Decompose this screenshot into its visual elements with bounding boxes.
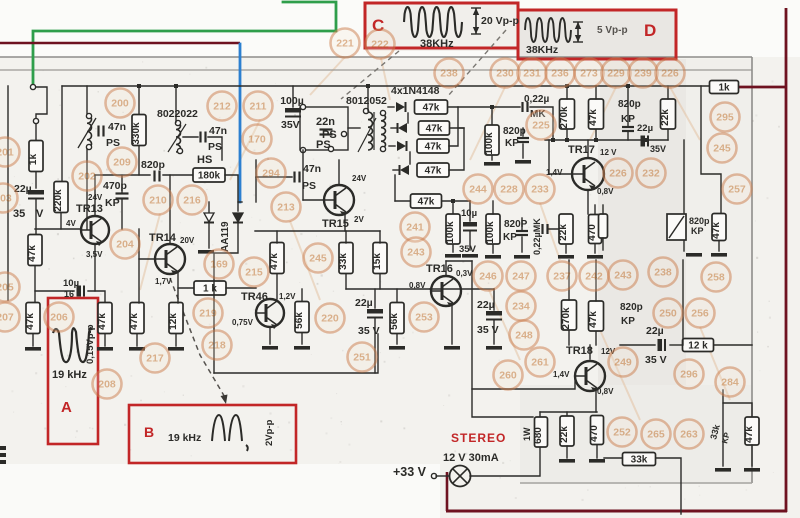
junction det [451, 199, 455, 203]
callout 229 [602, 59, 631, 88]
T1 terminal b [177, 148, 182, 153]
capacitor 22u 35V mid [367, 309, 383, 318]
terminal 22n loop a [300, 104, 305, 109]
capacitor 22u 35V TR16 [486, 311, 502, 320]
wire 1k to TR46 base [226, 287, 256, 289]
callout 273 [575, 59, 604, 88]
svg-text:47k: 47k [423, 103, 440, 114]
svg-text:273: 273 [580, 68, 598, 80]
svg-text:12k: 12k [168, 313, 179, 330]
junction rail 270k-top [565, 84, 569, 88]
wire 100k det b down [492, 245, 494, 253]
callout 216 [178, 186, 207, 215]
wire 470p bottom [121, 199, 123, 229]
callout 222 [366, 30, 395, 59]
svg-text:203: 203 [0, 193, 12, 205]
svg-text:294: 294 [262, 168, 280, 180]
capacitor 47n PS second [201, 132, 206, 143]
svg-text:208: 208 [98, 379, 116, 391]
svg-text:225: 225 [532, 120, 550, 132]
wire 22u to R 47k [35, 200, 37, 235]
callout 200 [106, 89, 135, 118]
svg-text:470: 470 [587, 224, 598, 241]
resistor 12k out [683, 339, 714, 352]
resistor 100k det b [485, 214, 500, 244]
wire resistor x603 down [602, 238, 604, 250]
wire AA119 to bottom rail [214, 224, 238, 373]
annotation box B [129, 405, 296, 463]
svg-text:210: 210 [149, 195, 167, 207]
svg-text:249: 249 [614, 357, 632, 369]
callout 248 [510, 321, 539, 350]
wire blue to AA119 node [238, 201, 242, 203]
svg-text:47k: 47k [129, 313, 140, 330]
wire 820p det down [521, 237, 523, 252]
diode 1N4148 d [400, 165, 410, 175]
ground TR16 [444, 346, 460, 350]
wire TR15 collector [338, 160, 340, 185]
wire to 47k TR18 [595, 260, 597, 301]
ground AA119 [198, 250, 214, 254]
resistor 47k TR18 [588, 301, 604, 331]
ground [25, 347, 41, 351]
svg-text:56k: 56k [294, 312, 305, 329]
wire 47k-b ground [104, 334, 106, 346]
waveform 19kHz in box A [53, 328, 92, 362]
svg-text:244: 244 [469, 184, 487, 196]
resistor 47k bridge b [419, 121, 450, 135]
wire det in column [394, 175, 396, 201]
wire bridge to 0.22u [458, 106, 520, 108]
svg-text:232: 232 [642, 168, 660, 180]
svg-text:1,4V: 1,4V [553, 370, 570, 379]
diode 1N4148 c [397, 141, 407, 151]
callout 230 [491, 59, 520, 88]
svg-text:47k: 47k [27, 245, 38, 262]
wire base column x139 [138, 229, 140, 303]
svg-text:35 V: 35 V [645, 354, 667, 366]
wire column x684 [683, 140, 685, 251]
wire TR16 base node [430, 288, 494, 290]
callout 237 [548, 262, 577, 291]
transistor TR16 [431, 276, 461, 307]
callout 253 [410, 303, 439, 332]
wire TR16 emitter [451, 303, 453, 344]
diode 1N4148 a [396, 102, 406, 112]
wire input jog [36, 87, 47, 118]
svg-text:47k: 47k [418, 197, 435, 208]
svg-text:1W: 1W [522, 427, 532, 441]
wire rail to 22k TR17 [667, 86, 669, 99]
callout 250 [654, 299, 683, 328]
dashed pointer from box C right [448, 30, 506, 96]
node input terminal [33, 118, 38, 123]
ground 100k det a [445, 254, 461, 258]
waveform 38kHz in box D [525, 18, 571, 42]
svg-text:KP: KP [691, 226, 704, 236]
ground [97, 347, 113, 351]
svg-text:47k: 47k [588, 109, 599, 126]
wire loop 22n [300, 107, 348, 150]
svg-text:47n: 47n [209, 125, 227, 137]
transformer T1 winding [176, 122, 181, 152]
junction bridge-100k [490, 105, 494, 109]
svg-text:245: 245 [309, 253, 327, 265]
transistor TR14 [155, 244, 185, 275]
transistor TR15 [324, 185, 354, 216]
svg-text:234: 234 [512, 301, 530, 313]
callout 244 [464, 175, 493, 204]
wire TR18 collector [589, 345, 591, 359]
svg-text:169: 169 [210, 259, 228, 271]
svg-text:0,8V: 0,8V [409, 281, 426, 290]
callout 238 [435, 59, 464, 88]
wire rail to 820p TR17 [627, 86, 629, 126]
page frame right line [751, 57, 753, 483]
capacitor 22u 35V input [28, 190, 44, 199]
wire 33k down [345, 274, 347, 289]
wire TR18 emitter [595, 388, 597, 412]
svg-text:226: 226 [609, 168, 627, 180]
ground 56k-1 [294, 346, 310, 350]
wire TR17 collector [587, 140, 589, 157]
svg-text:15k: 15k [372, 253, 383, 270]
ground right extra [686, 253, 702, 257]
resistor 220k [53, 182, 68, 213]
svg-text:238: 238 [440, 68, 458, 80]
svg-text:8022022: 8022022 [157, 108, 198, 120]
wire TR16 collector [445, 261, 447, 276]
svg-text:B: B [144, 424, 154, 440]
wire 47k to TR46 [276, 274, 278, 299]
callout 210 [144, 186, 173, 215]
wire long to 680 [472, 261, 533, 417]
wire 12k ground [175, 334, 177, 346]
transformer T2 core [373, 112, 375, 150]
wire to diode a [388, 106, 394, 108]
svg-text:263: 263 [680, 429, 698, 441]
callout 220 [316, 304, 345, 333]
wire 100k det b up [492, 201, 494, 214]
ground 820p top [515, 160, 531, 164]
svg-text:AA119: AA119 [220, 221, 231, 252]
wire 22u TR16 down [493, 321, 495, 344]
wire 12k to border [714, 344, 752, 346]
svg-text:47n: 47n [303, 163, 321, 175]
T2 terminal a [363, 108, 368, 113]
wire 56k-2 ground [396, 334, 398, 344]
blue wire overlay [239, 44, 242, 202]
svg-text:47k: 47k [425, 142, 442, 153]
svg-text:35 V: 35 V [358, 325, 380, 337]
resistor 680 1W [533, 417, 548, 447]
svg-text:TR17: TR17 [568, 144, 595, 156]
callout 217 [141, 344, 170, 373]
ground 470 out [589, 459, 605, 463]
svg-text:22µ: 22µ [637, 123, 653, 134]
wire T1 to 47n-2 [183, 136, 198, 138]
svg-text:221: 221 [336, 38, 354, 50]
svg-text:19 kHz: 19 kHz [168, 432, 201, 444]
svg-text:16: 16 [64, 289, 74, 299]
capacitor 10u 35V det [463, 222, 477, 231]
resistor 15k [372, 243, 387, 274]
callout 204 [111, 230, 140, 259]
svg-text:56k: 56k [389, 313, 400, 330]
page edge marks [0, 446, 6, 464]
svg-text:241: 241 [406, 222, 424, 234]
wire 470 out down [596, 445, 598, 458]
svg-text:1,2V: 1,2V [279, 292, 296, 301]
wire 56k ground [301, 333, 303, 344]
svg-text:24V: 24V [352, 174, 367, 183]
wire 47k TR17 down [595, 130, 597, 140]
callout 234 [507, 292, 536, 321]
page frame top line [0, 56, 752, 58]
svg-text:245: 245 [713, 143, 731, 155]
svg-text:218: 218 [208, 340, 226, 352]
resistor 47k mid-left [97, 303, 112, 334]
callout 211 [244, 92, 273, 121]
junction 270k rail [565, 138, 569, 142]
callout 232 [637, 159, 666, 188]
svg-text:35: 35 [13, 208, 25, 220]
svg-text:47k: 47k [588, 311, 599, 328]
ground 47k br [744, 468, 760, 472]
wire left input column [7, 86, 9, 300]
terminal 22n loop b [300, 147, 305, 152]
wire emitter to 1k [178, 287, 194, 289]
wire to TR18 base [472, 377, 575, 389]
svg-text:295: 295 [716, 112, 734, 124]
svg-text:0,15Vp-p: 0,15Vp-p [85, 324, 96, 364]
callout 263 [675, 420, 704, 449]
trimmer resistor [667, 214, 686, 240]
ground x723 [715, 468, 731, 472]
wire rail to 22u TR18 [620, 344, 655, 346]
resistor 47k under TR14 [129, 303, 144, 334]
resistor 470 det [587, 215, 602, 244]
svg-text:248: 248 [515, 330, 533, 342]
amplitude arrow box C [471, 8, 481, 34]
callout 243 [609, 261, 638, 290]
svg-text:247: 247 [512, 271, 530, 283]
node at +33V [431, 473, 436, 478]
svg-text:236: 236 [551, 68, 569, 80]
svg-text:222: 222 [371, 39, 389, 51]
wire TR15 emitter [344, 214, 346, 231]
terminal small b [328, 146, 333, 151]
svg-text:206: 206 [50, 312, 68, 324]
capacitor 470p KP [116, 194, 129, 199]
resistor 330k [131, 115, 146, 146]
wire 0.22u to rail [530, 107, 553, 140]
svg-text:256: 256 [691, 308, 709, 320]
wire 22u mid down [374, 319, 376, 373]
wire 270k down [566, 130, 568, 140]
junction rail 330k [137, 84, 141, 88]
dark red wire to 1k [738, 86, 786, 89]
wire rail to 47k right [701, 86, 721, 215]
junction rail 820p-top [626, 84, 630, 88]
wire base rail y289 [346, 288, 430, 290]
svg-text:250: 250 [659, 308, 677, 320]
svg-text:2Vp-p: 2Vp-p [264, 419, 275, 446]
coil L1 adjustable [87, 115, 92, 148]
resistor 47k right [711, 214, 726, 241]
wire 22k det down [565, 245, 567, 253]
wire 47k bd join [449, 128, 464, 170]
ground 100k top [484, 162, 500, 166]
wire rail to 220k [61, 86, 63, 181]
svg-text:211: 211 [250, 101, 267, 113]
svg-text:47k: 47k [25, 313, 36, 330]
svg-text:204: 204 [116, 239, 134, 251]
wire 270k TR18 down [568, 331, 570, 345]
T1 terminal a [175, 120, 180, 125]
callout 207 [0, 303, 20, 332]
dark red bottom border wire [446, 510, 787, 513]
svg-text:47k: 47k [711, 222, 722, 239]
svg-text:252: 252 [613, 427, 631, 439]
dashed pointer to box B [170, 278, 228, 404]
svg-text:251: 251 [353, 352, 371, 364]
transistor TR46 [256, 299, 284, 329]
page frame bottom line [520, 482, 752, 484]
svg-text:296: 296 [680, 369, 698, 381]
svg-text:38KHz: 38KHz [420, 38, 454, 50]
capacitor 22u 35V TR17 [641, 136, 649, 147]
svg-text:38KHz: 38KHz [526, 44, 558, 56]
svg-text:TR14: TR14 [149, 232, 177, 244]
ground 22k det [558, 255, 574, 259]
wire 15k down [379, 274, 381, 289]
ground 470 det [587, 255, 603, 259]
callout 236 [546, 59, 575, 88]
wire to 22u mid [374, 289, 376, 308]
svg-text:47n: 47n [108, 121, 126, 133]
svg-text:228: 228 [500, 184, 518, 196]
wire +33V to lamp [436, 475, 449, 477]
junction rail T2 [366, 84, 370, 88]
wire TR13 emitter [94, 244, 96, 291]
wire 220k down [60, 213, 62, 229]
wire bridge out joint [458, 127, 464, 129]
wire to diode c [389, 145, 395, 147]
svg-text:470p: 470p [103, 180, 127, 192]
svg-text:HS: HS [197, 154, 212, 166]
transistor TR18 [575, 361, 605, 392]
svg-text:238: 238 [654, 267, 672, 279]
wire 470p top [121, 175, 123, 193]
wire 47k ac join [448, 107, 458, 146]
svg-text:PS: PS [322, 129, 337, 141]
wire 47n-2 right [208, 137, 222, 160]
transformer T2 primary [368, 112, 373, 150]
wire TR17 rail y140 [545, 139, 668, 141]
svg-text:22µ: 22µ [355, 297, 373, 309]
svg-text:215: 215 [245, 267, 263, 279]
dark red right border wire [785, 8, 788, 512]
svg-text:4x1N4148: 4x1N4148 [391, 85, 440, 97]
callout 243 [402, 238, 431, 267]
callout 261 [526, 348, 555, 377]
resistor 47k bridge c [417, 139, 449, 153]
wire 0.22u det right [548, 228, 566, 230]
callout 221 [331, 29, 360, 58]
svg-text:33k: 33k [338, 253, 349, 270]
transformer T2 arrow [358, 118, 376, 152]
ground 10u det [462, 254, 478, 258]
wire 820p top a [522, 128, 524, 136]
svg-text:KP: KP [105, 197, 120, 209]
callout 239 [629, 59, 658, 88]
svg-text:270k: 270k [561, 307, 572, 330]
transistor TR17 [572, 158, 604, 190]
wire 820p top b [522, 144, 524, 158]
wire to resistor x603 [602, 205, 604, 214]
svg-text:0,75V: 0,75V [232, 318, 254, 327]
svg-text:270k: 270k [559, 106, 570, 129]
amplitude arrow box D [573, 22, 583, 42]
wire 10u to R 47k-b [88, 291, 105, 303]
svg-text:820p: 820p [141, 159, 165, 171]
resistor 56k first [294, 302, 309, 333]
callout 226 [656, 59, 685, 88]
wire rail to 33k [345, 231, 347, 243]
resistor 33k [338, 243, 353, 274]
svg-text:261: 261 [531, 357, 549, 369]
wire rail to 330k [138, 86, 140, 114]
svg-text:180k: 180k [198, 171, 221, 182]
wire rail to coil L1 [86, 86, 88, 114]
wire lamp to 680 resistor [470, 448, 540, 476]
svg-text:243: 243 [407, 247, 425, 259]
wire diode to ground [208, 224, 210, 248]
svg-text:258: 258 [707, 272, 725, 284]
wire +33V supply rail y86 [62, 85, 710, 87]
wire rail to 47k TR17 [595, 86, 597, 99]
wire 820p det up [521, 218, 523, 231]
svg-text:2V: 2V [354, 215, 364, 224]
svg-text:237: 237 [553, 271, 571, 283]
ground 820p det [514, 255, 530, 259]
ground 47k right [711, 253, 727, 257]
lamp stereo indicator [450, 466, 471, 487]
resistor 22k out [559, 416, 574, 446]
callout 231 [518, 59, 547, 88]
svg-text:12 V: 12 V [600, 148, 617, 157]
svg-text:100k: 100k [485, 221, 496, 244]
wire TR14 collector [169, 175, 171, 244]
wire rail to T1 [175, 86, 177, 122]
wire to 47n mid [256, 176, 292, 178]
svg-text:35V: 35V [281, 119, 300, 131]
callout 225 [527, 111, 556, 140]
svg-text:265: 265 [647, 429, 665, 441]
wire 820p TR17 down [627, 132, 629, 140]
wire mid rail y231 [255, 230, 380, 232]
wire column x723 [722, 403, 724, 466]
wire TR17 emitter [587, 191, 589, 214]
wire to 22u TR16 [493, 289, 495, 310]
wire 22n loop to TR15 base [302, 150, 304, 200]
wire 33k to bottom [656, 458, 681, 514]
junction 47k rail [594, 138, 598, 142]
resistor 56k second [389, 303, 404, 334]
callout 294 [257, 159, 286, 188]
wire TR14 emitter [177, 271, 179, 303]
